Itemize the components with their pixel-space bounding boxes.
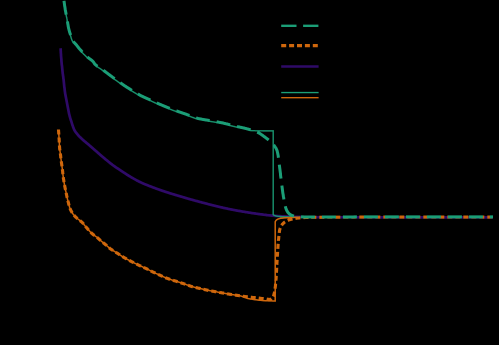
legend: thin orange sample <box>281 97 318 99</box>
legend: orange dotted sample <box>281 44 318 47</box>
legend: teal dashed sample <box>281 25 318 27</box>
thin teal theory line <box>64 2 300 218</box>
teal dashed curve <box>64 1 493 217</box>
thin orange theory line <box>59 130 301 302</box>
legend: purple solid sample <box>281 65 318 67</box>
orange dotted curve <box>59 130 494 300</box>
purple solid curve <box>61 48 493 217</box>
legend: thin teal sample <box>281 92 318 94</box>
